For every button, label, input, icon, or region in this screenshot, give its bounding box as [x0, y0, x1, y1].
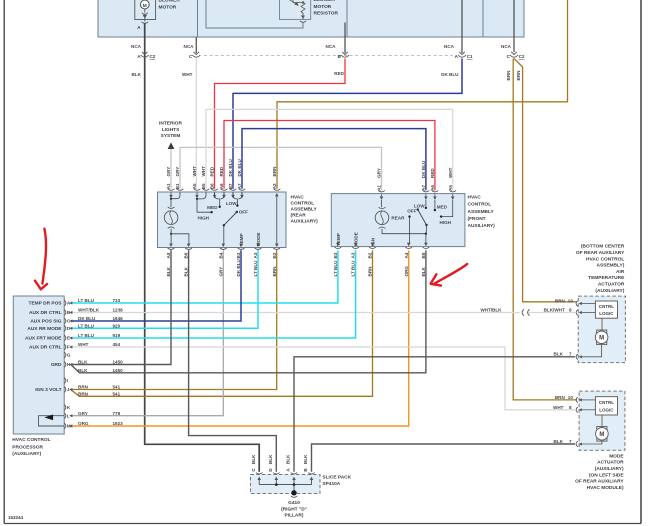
- red annotation arrow left: [35, 229, 47, 290]
- processor left pin labels: [25, 301, 62, 394]
- rear box top pin connectors A1 B1 A5 B5 B6 A6 B7 A7: [168, 189, 281, 199]
- svg-text:A6: A6: [219, 183, 224, 189]
- svg-text:BLK: BLK: [303, 454, 308, 464]
- svg-text:NCA: NCA: [501, 44, 512, 49]
- page bottom border: [4, 523, 641, 525]
- svg-text:454: 454: [113, 342, 121, 347]
- svg-text:ASSEMBLY): ASSEMBLY): [596, 263, 624, 269]
- blower motor M symbol: [135, 0, 156, 20]
- svg-text:RED: RED: [334, 71, 344, 76]
- svg-text:TEMP DR POS: TEMP DR POS: [29, 301, 63, 307]
- svg-text:AUX POS SIG: AUX POS SIG: [30, 319, 61, 325]
- svg-text:MED: MED: [207, 205, 218, 210]
- rear lamp ground branch to A8 B8: [170, 229, 189, 244]
- rear top pin labels: [166, 183, 277, 189]
- wire LT BLU 733 processor A to front B3: [71, 250, 338, 303]
- svg-text:HIGH: HIGH: [440, 220, 452, 225]
- svg-text:10: 10: [568, 298, 574, 303]
- svg-text:BLK: BLK: [78, 360, 88, 365]
- svg-text:BLOWER: BLOWER: [159, 0, 181, 4]
- svg-text:PILLAR): PILLAR): [285, 513, 304, 519]
- svg-text:AIR: AIR: [616, 269, 625, 275]
- svg-text:A6: A6: [430, 185, 435, 191]
- svg-text:AUXILIARY): AUXILIARY): [291, 219, 319, 225]
- front top wire color labels: [377, 160, 453, 178]
- svg-text:IGN 3 VOLT: IGN 3 VOLT: [35, 387, 61, 393]
- svg-text:LOGIC: LOGIC: [599, 407, 614, 412]
- inline connector on WHT/BLK wire: [522, 309, 529, 316]
- blower motor box (top-left, cut off): [98, 0, 198, 37]
- svg-text:(RIGHT "D": (RIGHT "D": [281, 506, 307, 512]
- rear fan switch A5/B5 HIGH contact: [196, 192, 213, 221]
- svg-text:B1: B1: [175, 183, 180, 189]
- svg-text:1238: 1238: [113, 308, 124, 313]
- wire BLK splice A to air temp pin 7: [294, 357, 575, 472]
- svg-text:BLK: BLK: [184, 266, 189, 276]
- front box top pin connectors: [378, 190, 456, 200]
- svg-text:GRY: GRY: [175, 167, 180, 177]
- svg-text:MOTOR: MOTOR: [159, 4, 177, 10]
- mode actuator caption: [575, 453, 624, 491]
- svg-text:BRN: BRN: [78, 391, 89, 396]
- processor pin letters: [67, 301, 71, 429]
- wire DK BLU C1 to rear B7: [461, 0, 463, 53]
- wire BRN C2 to mode actuator pin 10: [513, 59, 577, 400]
- rear fan switch OFF contact and wiper to B4: [223, 210, 248, 244]
- svg-text:153244: 153244: [8, 515, 24, 520]
- dashed harness line: [204, 55, 453, 57]
- wire RED resistor to rear B6: [344, 23, 346, 54]
- rear illumination lamp: [164, 199, 178, 229]
- svg-text:LT BLU: LT BLU: [351, 260, 356, 277]
- svg-text:OF REAR AUXILIARY: OF REAR AUXILIARY: [575, 479, 624, 485]
- blower motor pin A: [137, 20, 148, 31]
- svg-text:BLK/WHT: BLK/WHT: [544, 307, 565, 312]
- svg-text:B3: B3: [333, 252, 338, 258]
- svg-text:DK BLU: DK BLU: [78, 316, 96, 321]
- air temp pin BLK 7: [554, 345, 602, 360]
- svg-text:BLOWER: BLOWER: [314, 0, 336, 3]
- svg-text:10: 10: [568, 395, 574, 400]
- svg-text:MODE: MODE: [354, 232, 359, 246]
- svg-text:BRN: BRN: [368, 266, 373, 277]
- wire BRN C2 to air temp actuator pin 10: [514, 59, 577, 302]
- svg-text:BLK: BLK: [286, 454, 291, 464]
- svg-text:A5: A5: [192, 183, 197, 189]
- wire WHT 454 processor F to mode actuator pin 8: [71, 347, 575, 410]
- front illumination lamp REAR: [375, 200, 405, 229]
- svg-text:GRD: GRD: [51, 362, 62, 368]
- svg-text:BLK: BLK: [554, 439, 564, 444]
- svg-text:SLICE PACK: SLICE PACK: [322, 474, 351, 480]
- svg-text:A4: A4: [404, 252, 409, 258]
- svg-text:AUX RR MODE: AUX RR MODE: [27, 326, 62, 332]
- svg-text:LOW: LOW: [226, 201, 237, 206]
- air temp pin BRN 10: [555, 298, 596, 306]
- svg-text:NCA: NCA: [444, 44, 455, 49]
- top blue box section 3: [347, 0, 483, 37]
- splice bus: [259, 483, 311, 486]
- svg-text:WHT/BLK: WHT/BLK: [78, 308, 100, 313]
- svg-text:CNTRL: CNTRL: [599, 304, 614, 309]
- svg-text:BRN: BRN: [78, 385, 89, 390]
- svg-text:G410: G410: [288, 500, 300, 506]
- svg-text:DK BLU: DK BLU: [237, 158, 242, 176]
- page right border: [640, 0, 642, 524]
- page left border: [3, 0, 5, 524]
- svg-text:HIGH: HIGH: [198, 216, 210, 221]
- svg-text:(ON LEFT SIDE: (ON LEFT SIDE: [589, 472, 624, 478]
- rear bottom pin labels: [166, 252, 277, 258]
- svg-text:I: I: [67, 378, 68, 383]
- wire DK BLU 1646 processor C to rear B3: [71, 250, 241, 321]
- svg-text:OFF: OFF: [239, 210, 248, 215]
- svg-text:BLK: BLK: [166, 266, 171, 276]
- svg-text:LIGHTS: LIGHTS: [162, 127, 180, 133]
- svg-text:GRY: GRY: [377, 168, 382, 178]
- wire BLK 1450 front B8 to processor H: [72, 250, 426, 372]
- svg-text:WHT: WHT: [192, 166, 197, 177]
- svg-text:B7: B7: [228, 183, 233, 189]
- svg-text:BLK: BLK: [268, 454, 273, 464]
- blower motor label: [159, 0, 181, 10]
- rear fan switch B6/A6 MED contact: [207, 192, 224, 210]
- svg-text:DK BLU: DK BLU: [441, 72, 459, 77]
- svg-text:B6: B6: [210, 183, 215, 189]
- svg-text:7: 7: [569, 352, 572, 357]
- svg-text:ORG: ORG: [78, 421, 89, 426]
- svg-text:AUX DR CTRL: AUX DR CTRL: [29, 345, 62, 351]
- wire BRN 541 front B2 to processor J: [72, 250, 373, 396]
- rear lamp circuit: B1 hook junction: [170, 192, 180, 200]
- HVAC control processor (auxiliary) box: [13, 296, 64, 434]
- rear fan switch B7/A7 LOW contact: [226, 192, 242, 207]
- wire BLK rear B8 to splice D: [189, 250, 277, 471]
- NCA connector A/C1 DK BLU: [444, 44, 473, 59]
- svg-text:B2: B2: [368, 252, 373, 258]
- svg-text:(BOTTOM CENTER: (BOTTOM CENTER: [581, 244, 625, 250]
- svg-text:BRN: BRN: [555, 395, 566, 400]
- svg-text:8: 8: [569, 405, 572, 410]
- svg-text:B8: B8: [421, 252, 426, 258]
- wire GRY 778 processor L to rear B4: [71, 250, 223, 415]
- processor box label: [12, 437, 50, 457]
- wire GRY rear B1 to front A1: [180, 147, 382, 190]
- svg-text:GRY: GRY: [218, 267, 223, 277]
- svg-text:733: 733: [113, 298, 121, 303]
- svg-text:NCA: NCA: [184, 44, 195, 49]
- svg-text:MODE: MODE: [256, 232, 261, 246]
- mode CNTRL LOGIC box: [595, 397, 617, 415]
- red annotation arrow right: [431, 264, 468, 286]
- mode pin WHT 8: [553, 405, 595, 413]
- rear top wire color labels: [166, 158, 277, 176]
- svg-text:SP410A: SP410A: [322, 481, 340, 487]
- svg-text:C1: C1: [467, 54, 473, 59]
- svg-text:B8: B8: [184, 252, 189, 258]
- air temp pin BLK/WHT 8: [544, 307, 596, 315]
- mode pin BLK 7: [554, 439, 602, 447]
- NCA connector C/C2 BRN: [501, 44, 525, 59]
- svg-text:DK BLU: DK BLU: [421, 160, 426, 178]
- svg-text:GRY: GRY: [166, 167, 171, 177]
- mode motor M: [596, 415, 609, 441]
- svg-text:PROCESSOR: PROCESSOR: [12, 444, 43, 450]
- svg-text:MODE: MODE: [609, 453, 624, 459]
- svg-text:AUX FRT MODE: AUX FRT MODE: [25, 336, 62, 342]
- svg-text:B3: B3: [236, 252, 241, 258]
- svg-text:REAR: REAR: [391, 216, 405, 221]
- svg-text:LT BLU: LT BLU: [333, 260, 338, 277]
- air temp motor M: [595, 318, 608, 344]
- svg-text:LT BLU: LT BLU: [78, 298, 95, 303]
- svg-text:INTERIOR: INTERIOR: [159, 121, 182, 127]
- front lamp ground to B8: [382, 229, 427, 244]
- svg-text:WHT/BLK: WHT/BLK: [480, 307, 502, 312]
- splice pack SP410A dashed box: [251, 475, 321, 494]
- wire BLK 1450 rear A8 to processor H: [71, 250, 171, 364]
- wire LT BLU 920 processor D to rear A3: [71, 250, 258, 328]
- splice pin D: [268, 454, 280, 485]
- svg-text:1450: 1450: [113, 368, 124, 373]
- svg-text:BRN: BRN: [506, 70, 511, 81]
- svg-text:541: 541: [113, 385, 121, 390]
- blower motor resistor symbol: [280, 0, 311, 19]
- front top pin labels: [377, 185, 453, 191]
- svg-text:RED: RED: [430, 168, 435, 178]
- wire DK BLU rear A7 to front A7: [242, 129, 426, 191]
- HVAC control assembly (rear auxiliary) box: [158, 192, 287, 248]
- svg-text:HVAC: HVAC: [291, 195, 305, 201]
- svg-text:(AUXILIARY): (AUXILIARY): [12, 451, 41, 457]
- processor wire color labels: [78, 298, 100, 426]
- wire WHT/BLK 1238 processor B to air temp pin 8: [71, 312, 520, 314]
- svg-text:BRN: BRN: [272, 166, 277, 177]
- svg-text:HVAC: HVAC: [468, 194, 482, 200]
- svg-text:(FRONT: (FRONT: [468, 216, 486, 222]
- svg-text:CONTROL: CONTROL: [468, 202, 492, 208]
- svg-text:ASSEMBLY: ASSEMBLY: [468, 209, 495, 215]
- svg-text:WHT: WHT: [553, 405, 564, 410]
- svg-text:IGN: IGN: [370, 237, 375, 246]
- front box label: [468, 194, 496, 229]
- svg-text:A7: A7: [237, 183, 242, 189]
- air temperature actuator (auxiliary) dashed box: [578, 296, 625, 363]
- svg-text:CONTROL: CONTROL: [291, 201, 315, 207]
- wire BLK mode actuator pin 7 to splice B: [312, 444, 576, 472]
- processor circuit numbers: [113, 298, 124, 426]
- svg-text:HVAC CONTROL: HVAC CONTROL: [12, 437, 50, 443]
- svg-text:ASSEMBLY: ASSEMBLY: [291, 207, 318, 213]
- svg-text:AUXILIARY): AUXILIARY): [468, 223, 496, 229]
- NCA connector B resistor RED: [326, 44, 349, 59]
- HVAC control assembly (front auxiliary) box: [331, 194, 465, 247]
- svg-text:ORG: ORG: [404, 266, 409, 277]
- svg-text:RESISTOR: RESISTOR: [314, 11, 339, 17]
- svg-text:AUX DR CTRL: AUX DR CTRL: [29, 310, 62, 316]
- svg-text:ACTUATOR: ACTUATOR: [597, 460, 624, 466]
- svg-text:A3: A3: [253, 252, 258, 258]
- svg-text:541: 541: [113, 391, 121, 396]
- wire BRN A2 rear to top edge: [277, 0, 568, 189]
- processor pin brackets A-M: [64, 300, 66, 429]
- svg-text:A1: A1: [377, 185, 382, 191]
- mode pin BRN 10: [555, 395, 596, 403]
- svg-text:A2: A2: [272, 183, 277, 189]
- blower motor resistor label: [314, 0, 339, 17]
- air temp CNTRL LOGIC box: [595, 301, 617, 318]
- svg-text:(AUXILIARY): (AUXILIARY): [595, 466, 624, 472]
- svg-text:RED: RED: [219, 166, 224, 176]
- svg-text:GRY: GRY: [78, 411, 88, 416]
- front A4 contact wire: [408, 215, 410, 244]
- interior lights system label: [159, 121, 182, 139]
- svg-text:TEMP: TEMP: [239, 233, 244, 246]
- svg-text:MED: MED: [437, 205, 448, 210]
- svg-text:TEMPERATURE: TEMPERATURE: [588, 275, 625, 281]
- svg-text:M: M: [599, 336, 604, 342]
- svg-text:LOW: LOW: [414, 203, 425, 208]
- wire GRY rear A1 to interior lights arrow: [170, 149, 172, 189]
- svg-text:BLK: BLK: [421, 266, 426, 276]
- svg-text:OF REAR AUXILIARY: OF REAR AUXILIARY: [576, 250, 625, 256]
- svg-text:1450: 1450: [113, 360, 124, 365]
- splice pin C: [251, 454, 263, 485]
- svg-text:G: G: [67, 353, 71, 358]
- svg-text:A5: A5: [448, 185, 453, 191]
- svg-text:BLK: BLK: [251, 454, 256, 464]
- mode actuator (auxiliary) dashed box: [579, 391, 625, 450]
- wire WHT blower to rear A5: [195, 37, 197, 53]
- splice pin B: [303, 454, 315, 485]
- splice pin A: [286, 454, 298, 485]
- front bottom wire color labels: [333, 260, 426, 277]
- front box bottom pin connectors: [335, 243, 430, 249]
- svg-text:920: 920: [113, 323, 121, 328]
- svg-text:8: 8: [569, 307, 572, 312]
- svg-text:NCA: NCA: [326, 44, 337, 49]
- wire RED rear A6 to front A6: [224, 121, 435, 191]
- svg-text:B4: B4: [218, 252, 223, 258]
- svg-text:SYSTEM: SYSTEM: [161, 133, 181, 139]
- svg-text:BRN: BRN: [555, 298, 566, 303]
- svg-text:DK BLU: DK BLU: [228, 158, 233, 176]
- svg-text:A1: A1: [166, 183, 171, 189]
- svg-text:LT BLU: LT BLU: [78, 323, 95, 328]
- blower motor resistor box: [198, 0, 348, 37]
- wire WHT rear B5 to front A5: [206, 109, 453, 190]
- rear box bottom pin connectors: [168, 244, 281, 250]
- wire BLK from blower motor to splice pack C: [145, 23, 260, 472]
- NCA connector A/C2 blower BLK: [131, 44, 156, 59]
- svg-text:TEMP: TEMP: [336, 233, 341, 246]
- rear A2-B2 internal wire: [275, 193, 279, 247]
- svg-text:NCA: NCA: [131, 44, 142, 49]
- front fan switch OFF contact and wiper: [407, 208, 427, 233]
- svg-text:M: M: [143, 3, 147, 9]
- rear bottom wire color labels: [166, 258, 277, 276]
- front bottom pin labels: [333, 252, 426, 258]
- svg-text:BRN: BRN: [516, 70, 521, 81]
- svg-text:LOGIC: LOGIC: [599, 311, 614, 316]
- wire BRN 541 rear B2 to processor J: [71, 250, 277, 389]
- svg-text:1923: 1923: [113, 421, 124, 426]
- svg-text:WHT: WHT: [448, 167, 453, 178]
- svg-text:BLK: BLK: [554, 352, 564, 357]
- svg-text:LT BLU: LT BLU: [78, 333, 95, 338]
- svg-text:B5: B5: [201, 183, 206, 189]
- svg-text:A3: A3: [351, 252, 356, 258]
- svg-text:HVAC MODULE): HVAC MODULE): [587, 485, 624, 491]
- svg-text:BRN: BRN: [272, 266, 277, 277]
- front fan switch HIGH contact: [440, 200, 453, 225]
- svg-text:LT BLU: LT BLU: [253, 260, 258, 277]
- resistor output loop wire: [206, 0, 306, 28]
- wire ORG 1923 processor M to front A4: [71, 250, 409, 426]
- processor internal diode symbol L-M: [39, 415, 65, 427]
- ground G410: [281, 485, 307, 519]
- svg-text:BLK: BLK: [78, 368, 88, 373]
- wire BRN above connector C2: [513, 0, 515, 52]
- svg-text:WHT: WHT: [201, 166, 206, 177]
- svg-text:OFF: OFF: [407, 209, 416, 214]
- svg-text:DK BLU: DK BLU: [236, 258, 241, 276]
- splice pack label: [322, 474, 351, 487]
- svg-text:BLK: BLK: [132, 72, 142, 77]
- NCA connector C blower WHT: [184, 44, 201, 59]
- svg-text:7: 7: [569, 439, 572, 444]
- air temperature actuator caption: [576, 244, 625, 294]
- svg-text:WHT: WHT: [78, 342, 89, 347]
- top blue box section 4: [483, 0, 524, 37]
- svg-text:WHT: WHT: [182, 72, 193, 77]
- svg-text:778: 778: [113, 411, 121, 416]
- wire LT BLU 919 processor E to front A3: [71, 250, 356, 338]
- rear box label: [291, 195, 319, 225]
- svg-text:(REAR: (REAR: [291, 213, 307, 219]
- svg-text:1646: 1646: [113, 316, 124, 321]
- svg-text:CNTRL: CNTRL: [599, 400, 614, 405]
- processor wire arrowheads: [69, 301, 72, 427]
- svg-text:(AUXILIARY): (AUXILIARY): [595, 288, 624, 294]
- front fan switch LOW contact: [414, 200, 427, 209]
- svg-text:C2: C2: [519, 54, 525, 59]
- svg-text:RED: RED: [210, 166, 215, 176]
- interior lights arrow: [168, 142, 175, 149]
- svg-text:MOTOR: MOTOR: [314, 4, 332, 10]
- svg-text:ACTUATOR: ACTUATOR: [598, 282, 625, 288]
- svg-text:A8: A8: [166, 252, 171, 258]
- svg-text:A7: A7: [421, 185, 426, 191]
- svg-text:M: M: [599, 432, 604, 438]
- svg-text:HVAC CONTROL: HVAC CONTROL: [586, 256, 624, 262]
- svg-text:919: 919: [113, 333, 121, 338]
- svg-text:C2: C2: [150, 54, 156, 59]
- svg-text:B2: B2: [272, 252, 277, 258]
- front fan switch MED contact: [434, 200, 448, 211]
